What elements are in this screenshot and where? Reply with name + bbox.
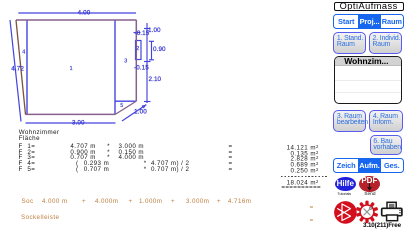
svg-text:1.00: 1.00 bbox=[134, 109, 147, 116]
svg-text:3: 3 bbox=[124, 58, 127, 64]
svg-text:0.90: 0.90 bbox=[153, 46, 166, 53]
svg-text:5: 5 bbox=[120, 103, 123, 109]
svg-text:-0.15: -0.15 bbox=[134, 65, 149, 72]
svg-text:1: 1 bbox=[70, 66, 73, 72]
svg-text:1.00: 1.00 bbox=[148, 27, 161, 34]
svg-text:3.00: 3.00 bbox=[72, 119, 85, 126]
svg-text:2: 2 bbox=[136, 46, 139, 52]
svg-text:4: 4 bbox=[22, 50, 25, 56]
svg-text:2.10: 2.10 bbox=[149, 76, 162, 83]
svg-text:4.72: 4.72 bbox=[11, 66, 24, 73]
svg-text:4.00: 4.00 bbox=[78, 9, 91, 16]
